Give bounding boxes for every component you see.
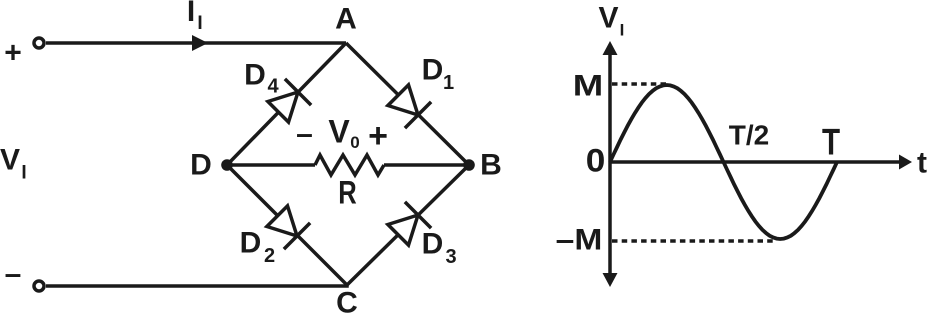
sine wave of V_I bbox=[610, 85, 837, 239]
svg-text:M: M bbox=[573, 69, 603, 102]
dashed level M bbox=[612, 82, 666, 86]
wire resistor to B bbox=[384, 163, 469, 167]
label 0 bbox=[586, 144, 606, 179]
svg-text:0: 0 bbox=[586, 144, 606, 179]
svg-text:D: D bbox=[244, 59, 266, 92]
svg-text:I: I bbox=[187, 0, 195, 28]
node D junction dot bbox=[221, 159, 233, 171]
svg-text:+: + bbox=[4, 37, 22, 70]
svg-text:T/2: T/2 bbox=[729, 120, 769, 151]
input terminal circle top bbox=[34, 38, 44, 48]
label R bbox=[338, 176, 357, 211]
graph horizontal axis t bbox=[610, 160, 901, 164]
svg-text:3: 3 bbox=[445, 246, 456, 268]
svg-text:–: – bbox=[296, 118, 313, 151]
svg-text:t: t bbox=[917, 147, 927, 180]
diode D3 bbox=[388, 202, 431, 245]
label -M bbox=[556, 222, 603, 256]
dashed level -M bbox=[612, 239, 773, 243]
diode D2 bbox=[267, 206, 310, 249]
svg-text:V: V bbox=[598, 2, 618, 35]
svg-text:V: V bbox=[0, 144, 20, 177]
svg-text:+: + bbox=[368, 117, 388, 155]
svg-text:I: I bbox=[21, 163, 26, 184]
wire C to B bbox=[347, 165, 469, 285]
svg-text:D: D bbox=[190, 149, 212, 182]
diode D4 bbox=[268, 79, 311, 122]
svg-text:2: 2 bbox=[264, 245, 275, 267]
svg-text:1: 1 bbox=[443, 72, 454, 94]
svg-text:D: D bbox=[240, 227, 262, 260]
wire A to D bbox=[227, 43, 346, 165]
node B junction dot bbox=[463, 159, 475, 171]
input terminal circle bottom bbox=[34, 281, 44, 291]
svg-text:–: – bbox=[5, 258, 22, 291]
svg-text:D: D bbox=[422, 54, 444, 87]
resistor R zigzag bbox=[315, 155, 384, 175]
svg-text:0: 0 bbox=[350, 133, 359, 152]
svg-text:T: T bbox=[822, 123, 841, 164]
wire D to C bbox=[227, 165, 347, 285]
wire A to B bbox=[346, 43, 469, 165]
svg-text:C: C bbox=[336, 287, 358, 318]
svg-text:D: D bbox=[422, 228, 444, 261]
svg-text:B: B bbox=[480, 149, 502, 182]
label T bbox=[822, 123, 841, 164]
wire bottom from - terminal to node C bbox=[46, 285, 347, 286]
diode D1 bbox=[388, 85, 431, 128]
svg-text:4: 4 bbox=[267, 76, 279, 98]
wire D to resistor bbox=[227, 163, 315, 167]
label M bbox=[573, 69, 603, 102]
svg-text:A: A bbox=[335, 3, 357, 36]
graph vertical axis V_I bbox=[608, 53, 612, 274]
svg-text:R: R bbox=[338, 176, 357, 211]
svg-text:V: V bbox=[328, 114, 350, 150]
svg-text:–M: –M bbox=[556, 222, 603, 256]
svg-text:I: I bbox=[620, 21, 625, 40]
current arrow I1 bbox=[192, 35, 208, 51]
svg-text:I: I bbox=[197, 13, 202, 34]
wire top from + terminal to node A bbox=[46, 41, 346, 45]
